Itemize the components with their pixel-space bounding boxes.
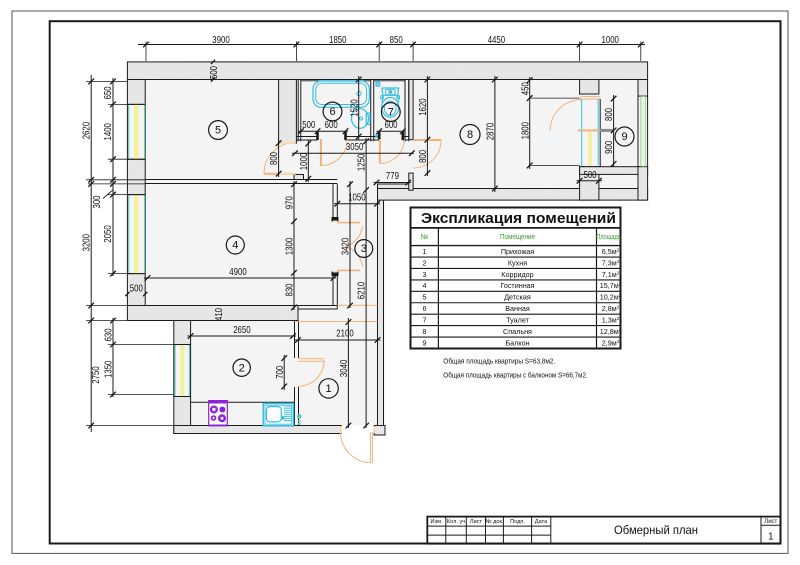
room label 8 [460,125,480,145]
svg-text:800: 800 [268,152,280,165]
wall: upper wing south band [378,189,648,201]
svg-text:15,7м2: 15,7м2 [600,281,622,290]
wall: toilet east lining [404,80,406,142]
svg-text:1400: 1400 [102,123,114,141]
svg-text:3040: 3040 [338,360,350,378]
stove [209,401,228,426]
wall: stub 779 under toilet [378,184,410,190]
svg-text:2050: 2050 [102,225,114,243]
svg-text:800: 800 [603,108,615,121]
svg-text:10,2м2: 10,2м2 [600,293,622,302]
svg-text:600: 600 [384,119,397,131]
room label 2 [233,359,250,376]
wall: kitchen west pier above window [174,321,191,345]
dimension 3040 hall1 [347,318,349,428]
svg-text:3050: 3050 [346,141,364,153]
room label 9 [615,127,634,146]
wall: left outer pier above room5 window [127,80,145,105]
svg-text:Спальня: Спальня [503,327,532,336]
window kitchen (left wall) [173,345,175,397]
lintel entry door [340,426,342,433]
wall: bathroom west lining [297,80,299,142]
wall: room5/room4 divider (thin) [145,179,337,181]
door bathroom: leaf [320,139,322,166]
wall: top outer (north) [127,62,647,80]
dimension 700 kitchen door [283,355,285,390]
wall: left outer between windows [127,159,145,194]
dimension 500 balcony [577,180,603,182]
door corridor double: lower arc [345,246,362,267]
svg-text:7: 7 [388,107,394,119]
svg-text:1800: 1800 [519,122,531,140]
svg-text:1300: 1300 [284,238,296,256]
svg-text:9: 9 [423,338,427,347]
svg-text:2620: 2620 [81,122,93,140]
door bathroom: swing arc [321,139,348,166]
svg-text:Обмерный план: Обмерный план [614,523,698,537]
balcony door swing arc [550,100,581,131]
svg-text:5: 5 [423,293,427,302]
svg-text:4900: 4900 [229,266,247,278]
lintel room5 door [279,142,295,144]
svg-text:Ванная: Ванная [505,304,530,313]
dimension 779 [374,182,412,184]
svg-text:Изм.: Изм. [431,519,443,525]
wall: bottom outer right of entry door [374,426,385,436]
room label 5 [209,121,228,140]
svg-text:6210: 6210 [356,282,368,300]
dimension top row [138,44,645,46]
svg-text:№ док.: № док. [486,519,504,525]
svg-text:4: 4 [232,240,238,252]
svg-text:2100: 2100 [336,328,354,340]
door toilet: swing arc [380,139,405,164]
svg-text:1: 1 [423,247,427,256]
door entry: leaf [369,432,371,463]
svg-text:Туалет: Туалет [506,315,529,324]
window room5 (left wall) [126,104,128,159]
svg-text:2870: 2870 [485,123,497,141]
svg-text:2750: 2750 [90,366,102,384]
dimension column 970/1300/830 [293,181,295,310]
dimension 1250+6210 column [365,138,367,428]
svg-text:850: 850 [390,34,403,46]
kitchen counter line [191,401,295,403]
svg-text:3900: 3900 [212,34,230,46]
svg-text:Кухня: Кухня [508,258,527,267]
svg-text:Подп.: Подп. [510,519,525,525]
svg-text:Лист: Лист [470,519,483,525]
svg-text:Общая площадь квартиры S=63,8м: Общая площадь квартиры S=63,8м2. [443,357,555,366]
dimension 2650 kitchen [188,335,297,337]
dimension 3420 corridor [349,181,351,308]
svg-text:Кол. уч: Кол. уч [447,519,465,525]
door jambs bathroom [316,132,319,140]
wall: room4/corridor partition lower [332,272,334,306]
svg-text:1000: 1000 [602,34,620,46]
door entry: swing arc [341,432,372,463]
svg-text:Корридор: Корридор [501,270,533,279]
svg-text:8: 8 [423,327,427,336]
bathtub [313,81,369,107]
svg-text:500: 500 [130,283,143,295]
dimension 2100 hall1 [295,339,381,341]
svg-text:№: № [421,232,429,241]
svg-text:700: 700 [274,366,286,379]
door corridor double: upper arc [345,226,362,247]
wall: kitchen north (thick 410) [127,306,298,321]
svg-text:1620: 1620 [417,98,429,116]
door kitchen: leaf [298,358,324,360]
svg-text:Помещение: Помещение [500,232,535,241]
gas riser symbol [297,414,302,419]
wall: bottom outer (south) left of entry door [174,426,341,434]
door room8: swing arc [413,140,441,168]
svg-text:1350: 1350 [103,360,115,378]
svg-text:5: 5 [215,125,221,137]
dimension 450/1800 [529,77,531,169]
svg-text:970: 970 [284,196,296,209]
svg-text:Детская: Детская [504,293,531,302]
balcony door/window assembly [580,96,600,98]
wall: bathrooms south lining w/ door gaps [296,136,317,138]
wall: right outer below balcony window [638,167,648,200]
door toilet: leaf [379,139,381,164]
dimension 1620/800 room8 [426,76,428,176]
wall: corridor east outer [378,184,384,434]
bathroom ceiling lining line [301,80,371,82]
svg-text:Дата: Дата [535,519,548,525]
svg-text:2: 2 [423,258,427,267]
door kitchen: swing arc [298,360,324,386]
svg-text:450: 450 [519,82,531,95]
svg-text:500: 500 [583,169,596,181]
room label 4 [226,236,244,254]
svg-text:900: 900 [603,141,615,154]
balcony door leaf [578,129,600,131]
dimension 600 toilet [377,130,406,132]
wall: bathroom/toilet partition [370,80,372,142]
svg-text:12,8м2: 12,8м2 [600,327,622,336]
wall: room4/corridor partition upper [332,184,334,221]
wall: right outer above balcony window [638,80,648,97]
door room5: leaf [264,173,295,175]
svg-text:1520: 1520 [348,99,360,117]
title block [427,517,780,544]
lintel corridor door [333,220,337,222]
svg-text:1000: 1000 [298,153,310,171]
svg-text:779: 779 [386,170,399,182]
entry door gap background [342,426,374,434]
svg-text:3: 3 [423,270,427,279]
wall: room8 west pier upper [409,80,413,140]
svg-text:Балкон: Балкон [505,338,529,347]
svg-text:Гостинная: Гостинная [500,281,534,290]
window balcony (right wall) [637,96,639,167]
wall: balcony south rail [580,167,648,175]
wall: room8/balcony column [580,80,599,95]
svg-text:7: 7 [423,315,427,324]
dimension 1050 corridor top [334,203,380,205]
dimension 800/900 balcony [613,95,615,167]
dimension 500/600 bathroom [298,130,348,132]
svg-text:1050: 1050 [348,192,366,204]
wall: kitchen west pier below window [174,397,191,434]
svg-text:1: 1 [326,383,332,395]
dimension 4900 room4 [144,277,336,279]
svg-text:3420: 3420 [340,238,352,256]
wall: room4 south thin wall [147,305,338,307]
extension lines top [145,42,147,62]
wall: kitchen/hall partition [294,321,296,359]
svg-text:3200: 3200 [81,234,93,252]
svg-text:600: 600 [325,119,338,131]
svg-text:Прихожая: Прихожая [501,247,534,256]
wash basin [352,109,369,129]
valve toilet corner [376,82,380,87]
svg-text:300: 300 [91,195,103,208]
svg-text:Общая площадь квартиры с балко: Общая площадь квартиры с балконом S=66,7… [443,370,588,379]
wall: left outer below room4 window [127,274,145,306]
svg-text:800: 800 [417,150,429,163]
dimension left inner column [112,78,114,276]
svg-text:830: 830 [284,283,296,296]
svg-text:Экспликация помещений: Экспликация помещений [421,211,616,227]
svg-text:650: 650 [102,86,114,99]
door corridor double: lower leaf [337,269,360,271]
svg-text:630: 630 [103,328,115,341]
room label 3 [355,240,373,258]
door room5: swing arc [264,142,295,173]
extension lines left [86,80,127,82]
window room4 (left wall) [126,195,128,274]
door room8: leaf [413,139,441,141]
dimension 3050 hall [292,152,414,154]
svg-text:1850: 1850 [329,34,347,46]
svg-text:410: 410 [213,308,225,321]
explication table [411,208,621,349]
dimension 800 room5 door [278,140,280,177]
balcony assembly east face line [599,99,601,167]
dimension 1000 hall [307,141,309,183]
opening corridor-hall lintel lines [337,304,377,306]
room label 1 [319,379,338,398]
balcony door sill divider [599,129,614,132]
flat interior background [127,62,647,434]
jamb block at room5 door [294,175,304,180]
svg-text:Площадь: Площадь [596,232,621,241]
svg-text:9: 9 [621,131,627,143]
svg-text:1: 1 [768,532,774,543]
dimension left outer column [90,75,92,432]
svg-text:6: 6 [423,304,427,313]
toilet [382,88,399,95]
svg-text:Лист: Лист [764,519,777,525]
wall: room8 west pier lower [409,173,413,190]
kitchen sink [263,404,293,426]
jamb blocks corridor door [332,217,339,221]
door corridor double: upper leaf [337,222,360,224]
svg-text:6: 6 [329,106,335,118]
room label 6 [323,102,342,121]
svg-text:8: 8 [467,129,473,141]
room label 7 [381,103,400,122]
wall: room5 east pier [279,80,297,144]
svg-text:2: 2 [239,362,245,374]
dimension 1520 bathroom [358,76,360,140]
dimension 2870 room8 [494,76,496,192]
svg-text:1250: 1250 [356,154,368,172]
svg-text:500: 500 [302,119,315,131]
svg-text:500: 500 [208,66,220,79]
wall: balcony partition below door [580,167,599,200]
svg-text:2650: 2650 [233,324,251,336]
svg-text:4: 4 [423,281,427,290]
svg-text:4450: 4450 [488,34,506,46]
